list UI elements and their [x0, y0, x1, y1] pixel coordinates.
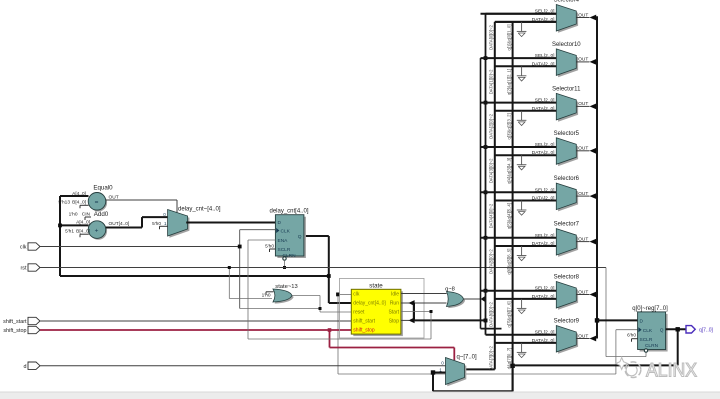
- svg-text:shift_stop: shift_stop: [353, 328, 375, 334]
- svg-text:B[4..0]: B[4..0]: [76, 228, 90, 234]
- state-machine state: [351, 283, 403, 337]
- or-gate state~13: [262, 284, 298, 304]
- ground ripper below Selector8 DATA: [517, 299, 527, 314]
- ground ripper below Selector9 DATA: [517, 343, 527, 358]
- mux q~[7..0]: [439, 355, 477, 387]
- wire shift_stop net red: [40, 328, 454, 360]
- wire data bus D vertical q feedback: [510, 22, 514, 391]
- register q[0]~reg[7..0]: [627, 306, 668, 352]
- svg-text:ENA: ENA: [278, 238, 289, 244]
- mux Selector6: [532, 176, 589, 211]
- svg-text:A[4..0]: A[4..0]: [72, 191, 86, 197]
- svg-text:state~13: state~13: [275, 284, 297, 290]
- svg-text:Run: Run: [390, 301, 399, 307]
- wire state Idle output to q~8: [401, 293, 447, 295]
- wire state Start output to delay reg ENA: [248, 240, 433, 339]
- value stub 5h1 B input of Add0: [80, 234, 89, 237]
- value stub 5h0 SCLR of delay_cnt reg: [270, 249, 276, 252]
- svg-text:DATA[0][0]~2: DATA[0][0]~2: [488, 25, 493, 50]
- svg-text:delay_cnt[4..0]: delay_cnt[4..0]: [269, 208, 308, 214]
- svg-text:state: state: [369, 283, 383, 290]
- output port q[7..0]: [686, 326, 714, 334]
- hierarchy bounding box state: [340, 278, 425, 338]
- wire OUT of Selector4 to out bus: [576, 15, 596, 21]
- svg-text:Equal0: Equal0: [93, 184, 113, 191]
- input port clk: [20, 243, 40, 251]
- svg-text:Selector9: Selector9: [554, 319, 580, 325]
- net label DATA[0][0]~2: [488, 25, 493, 50]
- svg-text:DATA[6][0]~2: DATA[6][0]~2: [488, 302, 493, 327]
- mux Selector11: [532, 86, 589, 121]
- svg-text:+: +: [95, 228, 99, 235]
- wire q0 reg Q to output port: [666, 327, 686, 331]
- svg-text:DATA[7][0]~2: DATA[7][0]~2: [488, 346, 493, 371]
- svg-text:Q: Q: [298, 234, 302, 240]
- input port d: [24, 362, 41, 370]
- ground ripper below Selector5 DATA: [517, 155, 527, 170]
- svg-text:Selector7: Selector7: [554, 222, 580, 228]
- svg-text:Selector5: Selector5: [554, 131, 580, 137]
- svg-text:Add0: Add0: [94, 211, 109, 218]
- wire OUT of Selector10 to out bus: [576, 59, 596, 65]
- net label q[5]&amp;q[4][5..4]: [507, 203, 512, 229]
- svg-text:shift_stop: shift_stop: [3, 328, 26, 334]
- value stub 6h0 SCLR of q0 reg: [632, 339, 638, 342]
- bottom toolbar strip: [0, 392, 720, 399]
- wire delay_cnt feedback net: [58, 196, 351, 303]
- svg-text:shift_start: shift_start: [353, 319, 375, 325]
- svg-text:DATA[3][0]~2: DATA[3][0]~2: [488, 158, 493, 183]
- wire data bus C vertical from q~ mux out: [465, 22, 557, 370]
- wire sel bus A vertical (q~8 net): [481, 58, 502, 329]
- svg-text:q~8: q~8: [445, 286, 455, 292]
- wire Equal0 OUT to mux select: [106, 195, 177, 214]
- net label DATA[1][0]~2: [488, 69, 493, 94]
- net label q[3]&amp;q[2][3..2]: [507, 113, 512, 139]
- wire clk net: [40, 230, 638, 374]
- ground ripper below Selector10 DATA: [517, 66, 527, 81]
- wire SEL[2..0] of Selector7: [481, 237, 557, 239]
- wire SEL[2..0] of Selector6: [481, 191, 557, 193]
- input port rst: [21, 264, 41, 272]
- comparator Equal0: [58, 184, 113, 211]
- svg-text:CLK: CLK: [281, 229, 291, 235]
- svg-text:5'h1: 5'h1: [65, 228, 74, 234]
- wire delay_cnt reg CLRN to rst net: [283, 260, 286, 269]
- svg-text:Idle: Idle: [391, 292, 399, 298]
- wire SEL[2..0] of Selector5: [481, 146, 557, 148]
- svg-text:5'h0: 5'h0: [265, 243, 274, 249]
- svg-text:Stop: Stop: [389, 319, 400, 325]
- svg-text:Selector6: Selector6: [554, 176, 580, 182]
- svg-text:reset: reset: [353, 310, 365, 316]
- wire sel bus B vertical (state bus): [484, 14, 557, 335]
- wire rst net: [40, 266, 646, 357]
- wire DATA[2..0] of Selector11: [495, 110, 557, 112]
- svg-text:B[4..0]: B[4..0]: [72, 199, 86, 205]
- wire DATA[2..0] of Selector9: [495, 342, 557, 344]
- svg-text:d&q[7][0..7]: d&q[7][0..7]: [507, 348, 512, 369]
- svg-text:shift_start: shift_start: [3, 319, 27, 325]
- wire SEL[2..0] of Selector11: [481, 102, 557, 104]
- ground ripper below Selector11 DATA: [517, 111, 527, 126]
- wire DATA[2..0] of Selector6: [495, 200, 557, 202]
- net label q[2]&amp;q[1][2..1]: [507, 69, 512, 95]
- svg-text:DATA[4][0]~2: DATA[4][0]~2: [488, 203, 493, 228]
- svg-text:delay_cnt~[4..0]: delay_cnt~[4..0]: [178, 206, 221, 212]
- net label DATA[2][0]~2: [488, 113, 493, 138]
- wire OUT of Selector6 to out bus: [576, 193, 596, 199]
- mux Selector10: [532, 42, 589, 77]
- svg-text:OUT[4..0]: OUT[4..0]: [109, 221, 130, 227]
- ground ripper below Selector4 DATA: [517, 22, 527, 37]
- wire SEL[2..0] of Selector4: [481, 13, 557, 15]
- wire out bus to q0 reg D: [597, 319, 638, 321]
- wire DATA[2..0] of Selector10: [495, 65, 557, 67]
- svg-text:SCLR: SCLR: [640, 337, 653, 343]
- mux Selector5: [532, 131, 589, 166]
- net label q[1]&amp;q[0][1..0]: [507, 24, 512, 50]
- net label q[4]&amp;q[3][4..3]: [507, 158, 512, 184]
- svg-text:d: d: [24, 364, 27, 370]
- svg-text:DATA[5][0]~2: DATA[5][0]~2: [488, 249, 493, 274]
- svg-text:D: D: [278, 220, 282, 226]
- wire SEL[2..0] of Selector10: [481, 57, 557, 59]
- mux delay_cnt~[4..0]: [152, 206, 221, 238]
- svg-text:Start: Start: [388, 310, 399, 316]
- mux Selector7: [532, 222, 589, 257]
- wire DATA[2..0] of Selector5: [495, 154, 557, 156]
- wire SEL[2..0] of Selector9: [486, 334, 557, 336]
- svg-text:CIN: CIN: [82, 211, 91, 217]
- wire q~8 out to sel bus A: [464, 296, 485, 302]
- svg-text:q[0]~reg[7..0]: q[0]~reg[7..0]: [632, 306, 668, 312]
- value stub 5h13 B input of Equal0: [80, 205, 89, 208]
- wire shift_start net: [40, 320, 351, 322]
- wire OUT of Selector9 to out bus: [576, 336, 596, 342]
- svg-text:Q: Q: [660, 327, 664, 333]
- wire OUT of Selector8 to out bus: [576, 292, 596, 298]
- net label q[6]&amp;q[5][6..5]: [507, 249, 512, 275]
- svg-text:Selector10: Selector10: [552, 42, 581, 48]
- svg-text:=: =: [95, 199, 99, 206]
- or-gate q~8: [445, 286, 465, 308]
- wire SEL[2..0] of Selector8: [481, 290, 557, 292]
- svg-text:delay_cnt[4..0]: delay_cnt[4..0]: [353, 301, 386, 307]
- input port shift_stop: [3, 326, 40, 334]
- wire delay mux out to register D: [186, 222, 275, 224]
- wire OUT of Selector11 to out bus: [576, 104, 596, 110]
- svg-text:q[7..0]: q[7..0]: [699, 327, 714, 333]
- svg-text:6'h0: 6'h0: [627, 333, 636, 339]
- ground ripper below Selector6 DATA: [517, 201, 527, 216]
- value stub 5h0 input 1 of delay mux: [160, 226, 168, 229]
- svg-text:5'h13: 5'h13: [58, 199, 70, 205]
- svg-text:q~[7..0]: q~[7..0]: [457, 355, 478, 361]
- svg-text:D: D: [640, 318, 644, 324]
- svg-text:q[1]&q[0][1..0]: q[1]&q[0][1..0]: [507, 24, 512, 50]
- value stub 1h0 CIN of Add0: [85, 217, 91, 220]
- wire state~13 out to state reset: [292, 296, 351, 313]
- svg-text:q[2]&q[1][2..1]: q[2]&q[1][2..1]: [507, 69, 512, 95]
- svg-text:ALINX: ALINX: [646, 360, 697, 382]
- wire DATA[2..0] of Selector7: [495, 245, 557, 247]
- wire state Run and Stop outputs merge to sel bus: [401, 300, 488, 323]
- svg-text:CLK: CLK: [643, 328, 653, 334]
- net label q[7]&amp;q[6][7..6]: [507, 301, 512, 327]
- svg-text:Selector8: Selector8: [554, 275, 580, 281]
- net label DATA[5][0]~2: [488, 249, 493, 274]
- svg-text:q[4]&q[3][4..3]: q[4]&q[3][4..3]: [507, 158, 512, 184]
- svg-text:rst: rst: [21, 266, 27, 272]
- svg-text:clk: clk: [20, 245, 27, 251]
- mux Selector4: [532, 0, 589, 33]
- mux Selector9: [532, 319, 589, 354]
- svg-text:CLRN: CLRN: [645, 343, 659, 349]
- svg-text:q[7]&q[6][7..6]: q[7]&q[6][7..6]: [507, 301, 512, 327]
- wire OUT of Selector5 to out bus: [576, 148, 596, 154]
- value stub 1h0 input of state~13: [266, 292, 274, 295]
- mux Selector8: [532, 275, 589, 310]
- net label d&amp;q[7][0..7]: [507, 348, 512, 369]
- net label DATA[3][0]~2: [488, 158, 493, 183]
- svg-text:1'h0: 1'h0: [69, 211, 78, 217]
- svg-text:SCLR: SCLR: [278, 247, 291, 253]
- wire OUT of Selector7 to out bus: [576, 239, 596, 245]
- wire d net: [40, 365, 446, 367]
- svg-text:A[4..0]: A[4..0]: [76, 220, 90, 226]
- svg-text:DATA[2][0]~2: DATA[2][0]~2: [488, 113, 493, 138]
- svg-text:Selector11: Selector11: [552, 86, 581, 92]
- net label DATA[4][0]~2: [488, 203, 493, 228]
- svg-text:0: 0: [163, 212, 166, 217]
- svg-text:0: 0: [441, 360, 444, 365]
- watermark ALINX logo: [616, 358, 697, 382]
- svg-text:Selector4: Selector4: [554, 0, 580, 4]
- net label DATA[7][0]~2: [488, 346, 493, 371]
- wire q feedback into q~ mux input 1: [431, 329, 678, 391]
- svg-text:DATA[1][0]~2: DATA[1][0]~2: [488, 69, 493, 94]
- register delay_cnt[4..0]: [265, 208, 309, 260]
- wire Add0 OUT[4:0] to mux input 0: [106, 217, 168, 227]
- svg-text:q[5]&q[4][5..4]: q[5]&q[4][5..4]: [507, 203, 512, 229]
- svg-text:q[6]&q[5][6..5]: q[6]&q[5][6..5]: [507, 249, 512, 275]
- wire selector out bus vertical: [595, 16, 599, 338]
- input port shift_start: [3, 317, 40, 325]
- net label DATA[6][0]~2: [488, 302, 493, 327]
- svg-text:1: 1: [164, 221, 167, 226]
- adder Add0: [65, 211, 109, 240]
- svg-text:q[3]&q[2][3..2]: q[3]&q[2][3..2]: [507, 113, 512, 139]
- svg-text:clk: clk: [353, 292, 360, 298]
- ground ripper below Selector7 DATA: [517, 246, 527, 261]
- wire DATA[2..0] of Selector8: [495, 298, 557, 300]
- wire DATA[2..0] of Selector4: [495, 21, 557, 23]
